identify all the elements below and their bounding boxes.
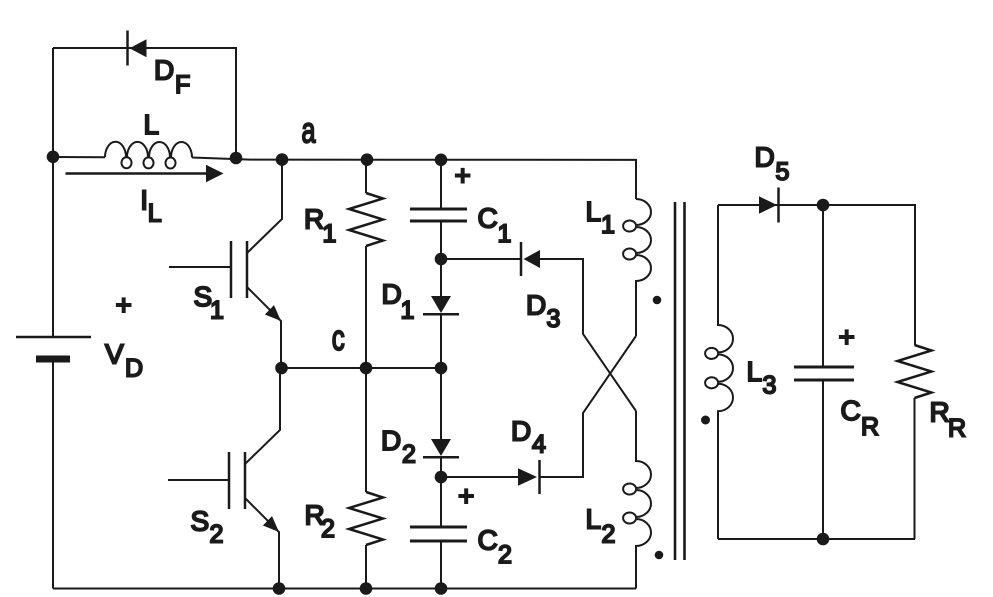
- svg-text:1: 1: [323, 220, 337, 248]
- svg-text:2: 2: [210, 521, 224, 549]
- svg-text:2: 2: [321, 515, 335, 543]
- svg-text:C: C: [478, 203, 498, 234]
- svg-text:D: D: [381, 425, 401, 456]
- wire node c: [281, 367, 441, 369]
- label R2: [305, 500, 335, 543]
- junction dot: [435, 471, 448, 484]
- junction dot: [435, 154, 448, 167]
- label C1: [478, 203, 512, 248]
- diode DF: [128, 31, 147, 66]
- svg-text:L: L: [747, 356, 763, 387]
- svg-text:3: 3: [763, 372, 777, 400]
- wire: [718, 538, 915, 540]
- label L3: [747, 356, 777, 400]
- transistor S2: [168, 368, 280, 589]
- inductor L3: [705, 205, 733, 539]
- junction dot: [47, 151, 60, 164]
- svg-text:1: 1: [210, 297, 224, 325]
- diode D2: [423, 368, 459, 477]
- label D3: [526, 290, 560, 333]
- label D2: [381, 425, 416, 469]
- svg-text:L: L: [586, 196, 602, 227]
- wire: [441, 259, 636, 411]
- capacitor C2: [410, 477, 467, 589]
- label C2: [478, 525, 512, 569]
- label IL: [140, 184, 162, 227]
- svg-text:3: 3: [547, 305, 561, 333]
- arrow IL: [66, 165, 224, 182]
- transformer core: [675, 202, 685, 560]
- junction dot: [817, 533, 830, 546]
- svg-text:D: D: [382, 278, 402, 309]
- resistor R2: [349, 368, 383, 589]
- svg-text:1: 1: [401, 296, 415, 324]
- battery VD: [16, 337, 91, 363]
- diode D4: [518, 460, 540, 494]
- svg-text:D: D: [755, 141, 775, 172]
- svg-text:C: C: [478, 525, 498, 556]
- svg-text:D: D: [526, 290, 546, 321]
- polarity dot L2: [655, 551, 664, 560]
- diode D1: [423, 259, 459, 368]
- junction dot: [435, 362, 448, 375]
- junction dot: [276, 153, 289, 166]
- inductor L2: [623, 411, 651, 589]
- label L1: [586, 196, 615, 239]
- junction dot: [435, 253, 448, 266]
- label D1: [382, 278, 415, 324]
- svg-text:2: 2: [602, 520, 616, 548]
- inductor L1: [623, 199, 651, 336]
- resistor RR: [898, 345, 932, 539]
- svg-text:c: c: [332, 318, 345, 358]
- label D4: [511, 416, 546, 459]
- svg-text:R: R: [948, 415, 966, 443]
- label VD: [105, 339, 143, 383]
- inductor L: [105, 142, 192, 169]
- label DF: [154, 55, 190, 100]
- svg-text:L: L: [144, 109, 160, 140]
- capacitor CR: [794, 205, 854, 539]
- svg-text:+: +: [455, 160, 471, 191]
- resistor R1: [349, 160, 383, 369]
- label CR: [841, 395, 880, 441]
- junction dot: [273, 582, 286, 595]
- polarity dot L3: [701, 416, 710, 425]
- svg-text:2: 2: [498, 541, 512, 569]
- capacitor C1: [410, 160, 467, 260]
- svg-text:+: +: [116, 290, 132, 321]
- svg-text:1: 1: [498, 220, 512, 248]
- diode D3: [521, 242, 540, 276]
- wire: [52, 48, 54, 589]
- wire: [53, 48, 236, 159]
- svg-text:a: a: [302, 110, 317, 151]
- svg-text:C: C: [841, 395, 861, 426]
- svg-text:D: D: [125, 355, 143, 383]
- label R1: [304, 204, 336, 249]
- svg-text:L: L: [148, 200, 162, 228]
- junction dot: [360, 582, 373, 595]
- svg-text:D: D: [511, 416, 531, 447]
- wire: [53, 157, 636, 199]
- svg-text:R: R: [930, 396, 950, 427]
- wire: [718, 205, 915, 345]
- svg-text:2: 2: [402, 441, 416, 469]
- junction dot: [360, 362, 373, 375]
- svg-text:+: +: [458, 481, 474, 512]
- svg-text:4: 4: [532, 430, 546, 458]
- svg-text:F: F: [175, 71, 190, 99]
- label S1: [194, 281, 224, 325]
- diode D5: [759, 188, 779, 223]
- label S2: [191, 506, 224, 549]
- svg-text:R: R: [861, 413, 879, 441]
- junction dot: [230, 152, 243, 165]
- junction dot: [275, 362, 288, 375]
- junction dot: [817, 199, 830, 212]
- polarity dot L1: [653, 296, 662, 305]
- label RR: [930, 396, 967, 442]
- junction dot: [435, 582, 448, 595]
- svg-text:5: 5: [776, 158, 790, 186]
- svg-text:D: D: [154, 55, 174, 86]
- svg-text:V: V: [105, 339, 124, 370]
- wire: [53, 588, 636, 590]
- svg-text:+: +: [839, 321, 855, 352]
- svg-text:R: R: [304, 204, 324, 235]
- svg-text:S: S: [191, 506, 210, 537]
- wire: [441, 336, 636, 477]
- label D5: [755, 141, 790, 185]
- svg-text:L: L: [586, 504, 602, 535]
- svg-text:1: 1: [601, 211, 615, 239]
- transistor S1: [169, 159, 282, 368]
- label L2: [586, 504, 616, 549]
- junction dot: [361, 153, 374, 166]
